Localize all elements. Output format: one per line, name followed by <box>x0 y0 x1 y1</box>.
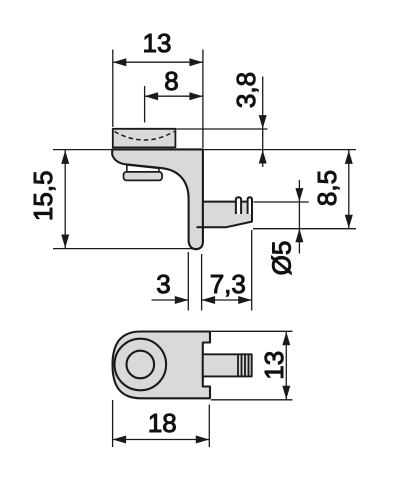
8,5 arrows <box>345 150 353 164</box>
3,8 arrows (outside) <box>259 115 267 129</box>
dim 13 extension lines <box>112 50 114 128</box>
18 ext lines <box>112 400 114 447</box>
top block (plate) <box>113 129 176 148</box>
dim 7,3 line <box>202 299 252 301</box>
18 dim line <box>113 439 210 441</box>
o5 arrows (outside) <box>295 188 303 202</box>
18 arrows <box>113 436 127 444</box>
arm bottom ext line <box>53 248 198 250</box>
svg-text:3: 3 <box>156 269 170 299</box>
clip bulge <box>124 172 163 181</box>
pin (side view) <box>203 202 252 228</box>
pin (bottom view) <box>203 354 252 376</box>
pin top ext line <box>254 201 309 203</box>
block top ext line <box>176 128 267 130</box>
ridge lines on pin tip <box>237 354 239 376</box>
ext lines 3 / 7,3 <box>187 252 189 311</box>
dim 13 line <box>113 61 203 63</box>
3 arrow (outside left) <box>175 296 189 304</box>
13 arrows <box>113 58 127 66</box>
svg-text:8,5: 8,5 <box>312 170 342 206</box>
arrows side view <box>61 58 353 304</box>
flange top ext line right <box>204 149 356 151</box>
13 dim line <box>285 331 287 400</box>
rib slots white <box>235 196 242 214</box>
body outline <box>113 332 211 399</box>
rib 2 / pin end <box>248 197 252 221</box>
8 arrows <box>145 92 159 100</box>
dim 3 line <box>152 299 189 301</box>
dimensions bottom view <box>113 331 293 447</box>
svg-text:Ø5: Ø5 <box>267 241 297 276</box>
dim 15,5 line <box>64 150 66 248</box>
dim 3,8 line <box>262 77 264 168</box>
svg-text:18: 18 <box>148 408 177 438</box>
13 arrows <box>282 332 290 346</box>
flange top ext line left <box>53 149 112 151</box>
13 ext lines <box>211 330 293 332</box>
svg-text:13: 13 <box>259 351 289 380</box>
flange and arm body <box>112 149 203 249</box>
svg-text:3,8: 3,8 <box>231 72 261 108</box>
clip neck (white band) <box>127 165 159 172</box>
svg-text:13: 13 <box>143 28 172 58</box>
dim 8 extension line <box>144 86 146 123</box>
dim 8,5 line <box>348 150 350 229</box>
dim 8 line <box>145 95 203 97</box>
outer circle <box>115 339 167 391</box>
pin bottom ext line <box>253 228 356 230</box>
inner circle <box>127 351 155 379</box>
svg-text:15,5: 15,5 <box>28 170 58 221</box>
dim o5 line <box>298 180 300 254</box>
svg-text:8: 8 <box>164 66 178 96</box>
dashed arc inside block <box>115 132 175 141</box>
svg-text:7,3: 7,3 <box>210 269 246 299</box>
7,3 arrows (inside) <box>202 296 216 304</box>
15,5 arrows <box>61 150 69 164</box>
rib 1 <box>236 197 241 214</box>
